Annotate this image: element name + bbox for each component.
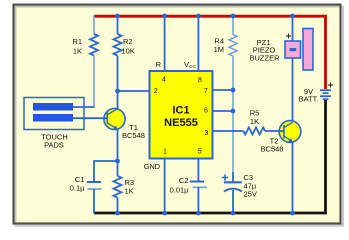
wire branch to C1	[94, 161, 118, 182]
svg-text:4: 4	[162, 77, 166, 84]
junction node ground/R3	[115, 211, 120, 216]
wire touch pad upper to R1	[73, 106, 95, 108]
junction node rail/pin8	[196, 14, 201, 19]
svg-text:1M: 1M	[214, 45, 224, 54]
wire node to IC pin 2	[118, 90, 151, 92]
svg-text:1K: 1K	[250, 117, 259, 126]
polarity + of battery	[328, 83, 333, 88]
wire R5 to T2 base	[265, 130, 284, 132]
svg-text:25V: 25V	[244, 190, 257, 199]
wire IC pin 6 to R4 line	[212, 110, 233, 112]
capacitor C3 47u 25V (electrolytic)	[222, 174, 242, 191]
junction node rail/buzzer	[290, 14, 295, 19]
wire rail to R2 top	[117, 16, 119, 34]
piezo buzzer PZ1	[285, 29, 313, 71]
wire rail to R1 top	[93, 15, 95, 34]
transistor T1 BC548	[104, 108, 126, 129]
wire rail to IC pin 8	[197, 16, 199, 72]
wire R1 bottom to upper touch pad	[93, 56, 95, 107]
svg-text:2: 2	[154, 88, 158, 95]
svg-text:PADS: PADS	[44, 141, 64, 150]
svg-text:5: 5	[198, 149, 202, 156]
svg-text:R2: R2	[123, 37, 133, 46]
battery BATT 9V	[320, 90, 331, 99]
svg-text:BC548: BC548	[261, 144, 284, 153]
capacitor C2	[190, 182, 207, 188]
wire T2 emitter to ground rail	[292, 142, 294, 213]
svg-text:1K: 1K	[73, 47, 82, 56]
wire IC pin 5 to C2	[197, 159, 199, 182]
junction node pin7	[231, 88, 236, 93]
svg-text:3: 3	[205, 130, 209, 137]
resistor R3	[114, 176, 122, 198]
svg-text:R1: R1	[72, 37, 82, 46]
svg-text:0.01µ: 0.01µ	[170, 186, 190, 195]
junction node pin6	[231, 109, 236, 114]
capacitor C1	[87, 182, 102, 189]
wire C2 bottom to ground rail	[197, 187, 199, 213]
svg-text:BUZZER: BUZZER	[250, 53, 281, 62]
polarity + of C3	[222, 174, 228, 180]
svg-text:1: 1	[163, 149, 167, 156]
junction node ground/C3	[231, 211, 236, 216]
svg-text:BATT.: BATT.	[299, 95, 319, 104]
svg-text:R: R	[156, 60, 162, 69]
wire C1 bottom to ground rail	[93, 189, 95, 214]
svg-text:8: 8	[198, 77, 202, 84]
wire C3 bottom to ground rail	[232, 190, 234, 213]
junction node ground/T2 emitter	[290, 211, 295, 216]
svg-text:10K: 10K	[122, 47, 135, 56]
wire R2 bottom to T1 collector	[117, 56, 119, 109]
svg-text:NE555: NE555	[164, 117, 198, 129]
svg-text:GND: GND	[144, 162, 161, 171]
svg-text:BC548: BC548	[122, 131, 145, 140]
svg-text:7: 7	[204, 88, 208, 95]
svg-text:C2: C2	[179, 176, 189, 185]
wire +9V rail (red) from R1 top across to battery positive	[94, 16, 326, 89]
junction node ground/C2	[196, 211, 201, 216]
wire IC pin 1 to ground rail	[164, 159, 166, 214]
touch pads TP	[24, 98, 84, 130]
junction node rail/R2	[115, 14, 120, 19]
wire R4 bottom down to C3 (through pins 7,6 junctions)	[232, 56, 234, 172]
wire IC pin 7 to R4 line	[212, 89, 233, 91]
junction node rail/R4	[231, 14, 236, 19]
svg-text:IC1: IC1	[172, 105, 189, 117]
svg-text:0.1µ: 0.1µ	[70, 184, 85, 193]
svg-text:6: 6	[204, 107, 208, 114]
wire lower touch pad to T1 base	[73, 117, 107, 119]
resistor R4	[229, 35, 237, 57]
junction node emitter/R3/C1	[115, 159, 120, 164]
polarity + of PZ1	[286, 34, 291, 39]
wire junction to C3 positive plate	[232, 172, 234, 182]
wire T1 emitter down to R3	[117, 130, 119, 177]
wire rail to IC pin 4	[164, 16, 166, 72]
junction node rail/pin4	[162, 14, 167, 19]
resistor R1	[90, 34, 98, 56]
wire R3 bottom to ground rail	[117, 198, 119, 213]
junction node ground/pin1	[162, 211, 167, 216]
transistor T2 BC548	[279, 121, 301, 143]
IC1 NE555 timer	[150, 71, 213, 159]
junction node R2/T1/pin2	[115, 89, 120, 94]
wire rail to buzzer and T2 collector	[292, 16, 294, 122]
wire rail to R4 top	[232, 16, 234, 35]
wire IC pin 3 to R5	[212, 130, 243, 132]
wire battery negative to ground rail (black) and bottom ground bus	[94, 100, 326, 213]
resistor R2	[114, 34, 122, 56]
resistor R5	[243, 128, 265, 135]
svg-text:1K: 1K	[125, 187, 134, 196]
